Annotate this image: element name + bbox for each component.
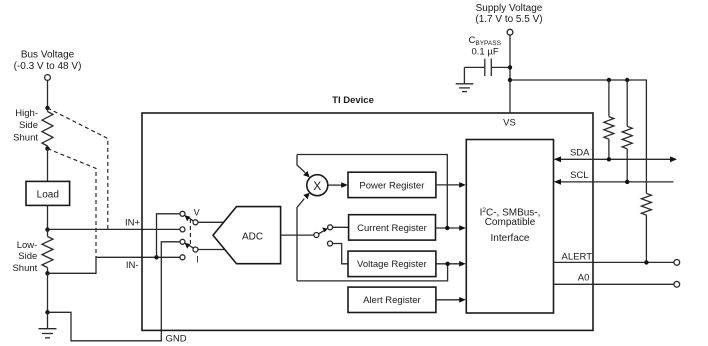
dashed wire: high-side shunt top to IN+ — [48, 108, 108, 229]
svg-text:Interface: Interface — [491, 233, 530, 244]
terminal: ALERT — [674, 260, 680, 266]
svg-text:Power Register: Power Register — [359, 180, 424, 191]
node: ALERT pull-up junction — [644, 260, 648, 264]
wire: shunt bottom to load — [47, 149, 49, 182]
svg-text:A0: A0 — [578, 273, 590, 284]
svg-text:Side: Side — [19, 120, 38, 131]
svg-text:Current Register: Current Register — [357, 223, 427, 234]
switch contact: I bottom (IN-) — [180, 255, 185, 260]
svg-text:Load: Load — [37, 189, 59, 200]
ground symbol (bypass) — [456, 67, 474, 91]
dashed wire: high-side shunt bottom to IN- — [48, 149, 97, 258]
wire: voltage register to interface — [436, 261, 466, 267]
switch pole: V — [193, 220, 198, 225]
switch contact: I top (GND) — [180, 239, 185, 244]
node: current register output junction — [445, 226, 449, 230]
wire: voltage feedback bottom loop — [297, 264, 448, 281]
switch pole: ADC output — [314, 233, 319, 238]
label: CBYPASS 0.1 uF — [469, 35, 502, 58]
node: rail to R2 — [625, 78, 629, 82]
terminal: bus voltage — [45, 75, 51, 81]
svg-text:Bus Voltage: Bus Voltage — [21, 50, 75, 61]
node: IN- to V-switch riser — [154, 255, 158, 259]
svg-text:Shunt: Shunt — [12, 263, 37, 274]
wire: A0 line — [554, 283, 674, 285]
node: IN- tap / low-side shunt bottom — [45, 271, 49, 275]
wire: IN- — [48, 257, 181, 273]
wire: current register to interface — [436, 225, 466, 231]
svg-text:Side: Side — [18, 251, 37, 262]
TI device box — [142, 113, 593, 330]
node: bypass cap junction — [508, 65, 512, 69]
wire: supply rail to pull-ups — [510, 80, 646, 193]
svg-text:ADC: ADC — [242, 232, 263, 243]
wire: X output arrow into Power Register — [328, 182, 348, 188]
resistor: ALERT pull-up — [641, 193, 651, 262]
switch arm I with arrow — [184, 243, 193, 249]
wire: VS pin — [509, 80, 511, 113]
svg-text:GND: GND — [166, 333, 187, 344]
svg-text:Shunt: Shunt — [13, 133, 38, 144]
svg-text:0.1 µF: 0.1 µF — [472, 46, 499, 57]
svg-text:High-: High- — [15, 108, 38, 119]
resistor: low-side shunt — [42, 230, 53, 274]
wire: SDA line — [554, 156, 677, 162]
wire: I pole to ADC — [198, 249, 225, 251]
wire: shunt bottom down to ground tap — [47, 273, 49, 312]
resistor: SDA pull-up — [604, 80, 614, 159]
wire: load to IN+ node — [47, 205, 49, 229]
voltage register — [348, 251, 436, 277]
switch contact: to voltage register — [328, 241, 333, 246]
node: SCL pull-up junction — [625, 180, 629, 184]
svg-text:Alert Register: Alert Register — [363, 295, 421, 306]
svg-text:Low-: Low- — [17, 240, 38, 251]
svg-text:(-0.3 V to 48 V): (-0.3 V to 48 V) — [14, 61, 82, 72]
label: Bus Voltage — [14, 50, 82, 73]
svg-text:Compatible: Compatible — [485, 217, 536, 228]
svg-text:ALERT: ALERT — [562, 251, 593, 262]
svg-text:X: X — [313, 179, 321, 193]
svg-text:IN+: IN+ — [125, 218, 141, 229]
node: voltage register output junction — [445, 262, 449, 266]
resistor: high-side shunt — [42, 108, 53, 149]
label: Supply Voltage — [475, 3, 542, 25]
wire: power register to interface — [436, 182, 466, 188]
svg-text:VS: VS — [503, 117, 516, 128]
capacitor CBYPASS — [464, 59, 510, 76]
load box — [26, 181, 70, 205]
wire: SCL line — [554, 179, 674, 185]
resistor: SCL pull-up — [622, 80, 632, 182]
wire: bus terminal to shunt top — [47, 80, 49, 108]
svg-text:(1.7 V to 5.5 V): (1.7 V to 5.5 V) — [475, 14, 542, 25]
alert register — [348, 287, 436, 312]
node: high-side shunt top — [45, 106, 49, 110]
ADC block — [213, 207, 281, 264]
wire: contact to current register — [333, 226, 349, 228]
wire: supply terminal down — [509, 35, 511, 80]
interface box — [466, 140, 553, 314]
switch contact: V top (from IN-) — [180, 211, 185, 216]
node: supply rail junction — [508, 78, 512, 82]
switch pole: I — [193, 247, 198, 252]
svg-text:Voltage Register: Voltage Register — [357, 259, 427, 270]
svg-text:IN-: IN- — [126, 260, 139, 271]
wire: current feedback top loop — [297, 155, 447, 229]
wire: alert register to interface — [436, 297, 466, 303]
label: Low-Side Shunt — [12, 240, 37, 274]
node: SDA pull-up junction — [607, 157, 611, 161]
ground symbol (left) — [39, 312, 57, 338]
svg-text:V: V — [194, 208, 200, 218]
svg-text:SDA: SDA — [570, 147, 590, 158]
wire: riser from IN- to V switch top contact — [157, 214, 181, 257]
svg-text:SCL: SCL — [570, 170, 588, 181]
wire: contact to voltage register — [333, 244, 349, 264]
svg-text:Supply Voltage: Supply Voltage — [476, 3, 543, 14]
wire: current feedback into X (top) — [297, 155, 310, 178]
dashed gang link between switch arms — [189, 219, 191, 247]
svg-text:TI Device: TI Device — [332, 95, 374, 106]
switch arm ADC output with arrow — [319, 228, 328, 234]
wire: V pole to ADC — [198, 221, 224, 223]
current register — [349, 215, 436, 240]
switch arm V with arrow — [184, 215, 193, 221]
node: high-side shunt bottom — [45, 146, 49, 150]
node: rail to R1 — [607, 78, 611, 82]
terminal: A0 — [674, 281, 680, 287]
switch contact: to current register — [328, 225, 333, 230]
node: ground tap — [45, 310, 49, 314]
terminal: supply voltage — [507, 29, 513, 35]
label: High-Side Shunt — [13, 108, 38, 144]
svg-text:I: I — [196, 254, 199, 264]
multiplier X — [307, 175, 328, 196]
wire: GND net to device GND pin — [48, 242, 181, 341]
switch contact: V bottom (IN+) — [180, 227, 185, 232]
power register — [348, 172, 436, 197]
node: IN+ tap / low-side shunt top — [45, 227, 49, 231]
wire: ADC output — [281, 234, 314, 236]
wire: voltage feedback into X (bottom) — [297, 193, 310, 281]
wire: IN+ — [48, 228, 181, 230]
wire: ALERT line — [554, 261, 674, 263]
